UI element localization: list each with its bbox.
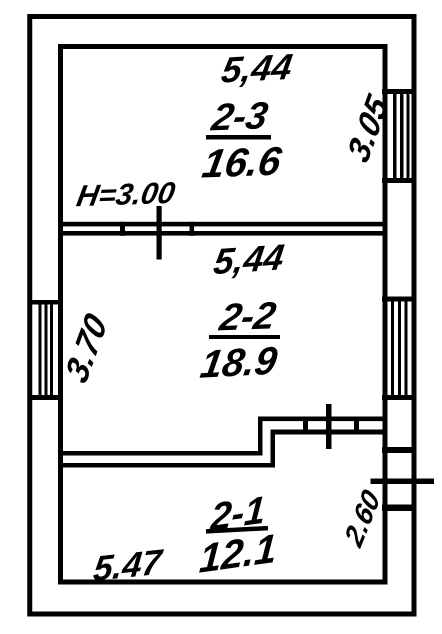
window W2 hatch lines xyxy=(393,94,410,178)
svg-text:18.9: 18.9 xyxy=(198,339,281,387)
svg-text:5,44: 5,44 xyxy=(211,236,287,282)
wall A top line (between room 2-3 and 2-2) xyxy=(58,222,387,227)
window W3 right-middle top bar xyxy=(382,297,417,302)
svg-text:2-3: 2-3 xyxy=(208,95,271,140)
wall B right top line xyxy=(258,417,388,422)
svg-text:2.60: 2.60 xyxy=(338,483,386,553)
wall B survey cross xyxy=(326,404,332,449)
wall B left top line (between room 2-2 and 2-1) xyxy=(58,451,262,456)
svg-text:H=3.00: H=3.00 xyxy=(74,177,177,213)
svg-text:3.70: 3.70 xyxy=(59,307,114,390)
wall A tick 2 xyxy=(190,222,195,236)
wall B right bottom line xyxy=(271,430,388,435)
wall B step outer vertical xyxy=(258,417,263,456)
right wall crossbar 1 xyxy=(382,447,417,453)
window W1 hatch lines xyxy=(39,304,54,396)
window W2 bottom bar xyxy=(382,178,417,183)
inner wall xyxy=(61,47,386,583)
window W3 bottom bar xyxy=(382,395,417,400)
wall B step inner vertical xyxy=(271,430,276,468)
wall B left bottom line xyxy=(58,463,275,468)
fraction line room 2-2 xyxy=(209,335,280,339)
svg-text:5.47: 5.47 xyxy=(91,542,165,589)
window W3 hatch lines xyxy=(391,302,408,396)
right wall long survey tick xyxy=(371,479,435,485)
svg-text:5,44: 5,44 xyxy=(219,46,295,91)
window W2 right-top top bar xyxy=(382,89,417,94)
svg-text:2-2: 2-2 xyxy=(216,295,279,340)
wall A survey cross xyxy=(157,206,162,260)
wall B tick 1 xyxy=(303,417,308,435)
fraction line room 2-1 xyxy=(206,526,268,534)
wall B tick 2 xyxy=(354,417,359,435)
window W1 left top bar xyxy=(28,300,64,305)
right wall crossbar 2 xyxy=(382,505,417,512)
svg-text:16.6: 16.6 xyxy=(199,138,285,187)
window W1 left bottom bar xyxy=(28,395,64,400)
fraction line room 2-3 xyxy=(206,135,271,140)
wall A tick 1 xyxy=(120,222,125,236)
wall A bottom line xyxy=(58,231,387,236)
